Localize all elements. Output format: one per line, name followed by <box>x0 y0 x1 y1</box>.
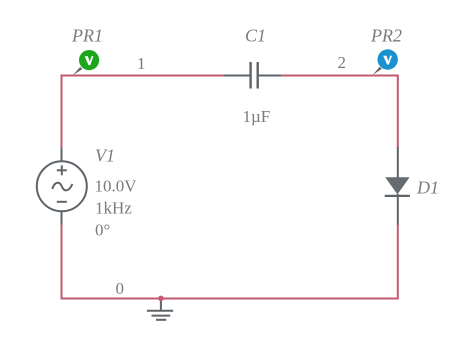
svg-text:PR1: PR1 <box>71 26 103 46</box>
svg-text:0: 0 <box>116 279 125 298</box>
svg-text:C1: C1 <box>245 26 266 46</box>
svg-text:1: 1 <box>137 54 146 73</box>
svg-text:V1: V1 <box>95 146 115 166</box>
svg-text:1µF: 1µF <box>243 107 271 126</box>
svg-text:2: 2 <box>338 53 347 72</box>
svg-text:PR2: PR2 <box>370 26 402 46</box>
svg-text:10.0V: 10.0V <box>95 177 138 196</box>
svg-text:D1: D1 <box>416 178 439 198</box>
svg-text:1kHz: 1kHz <box>95 199 132 218</box>
svg-text:0°: 0° <box>95 221 110 240</box>
